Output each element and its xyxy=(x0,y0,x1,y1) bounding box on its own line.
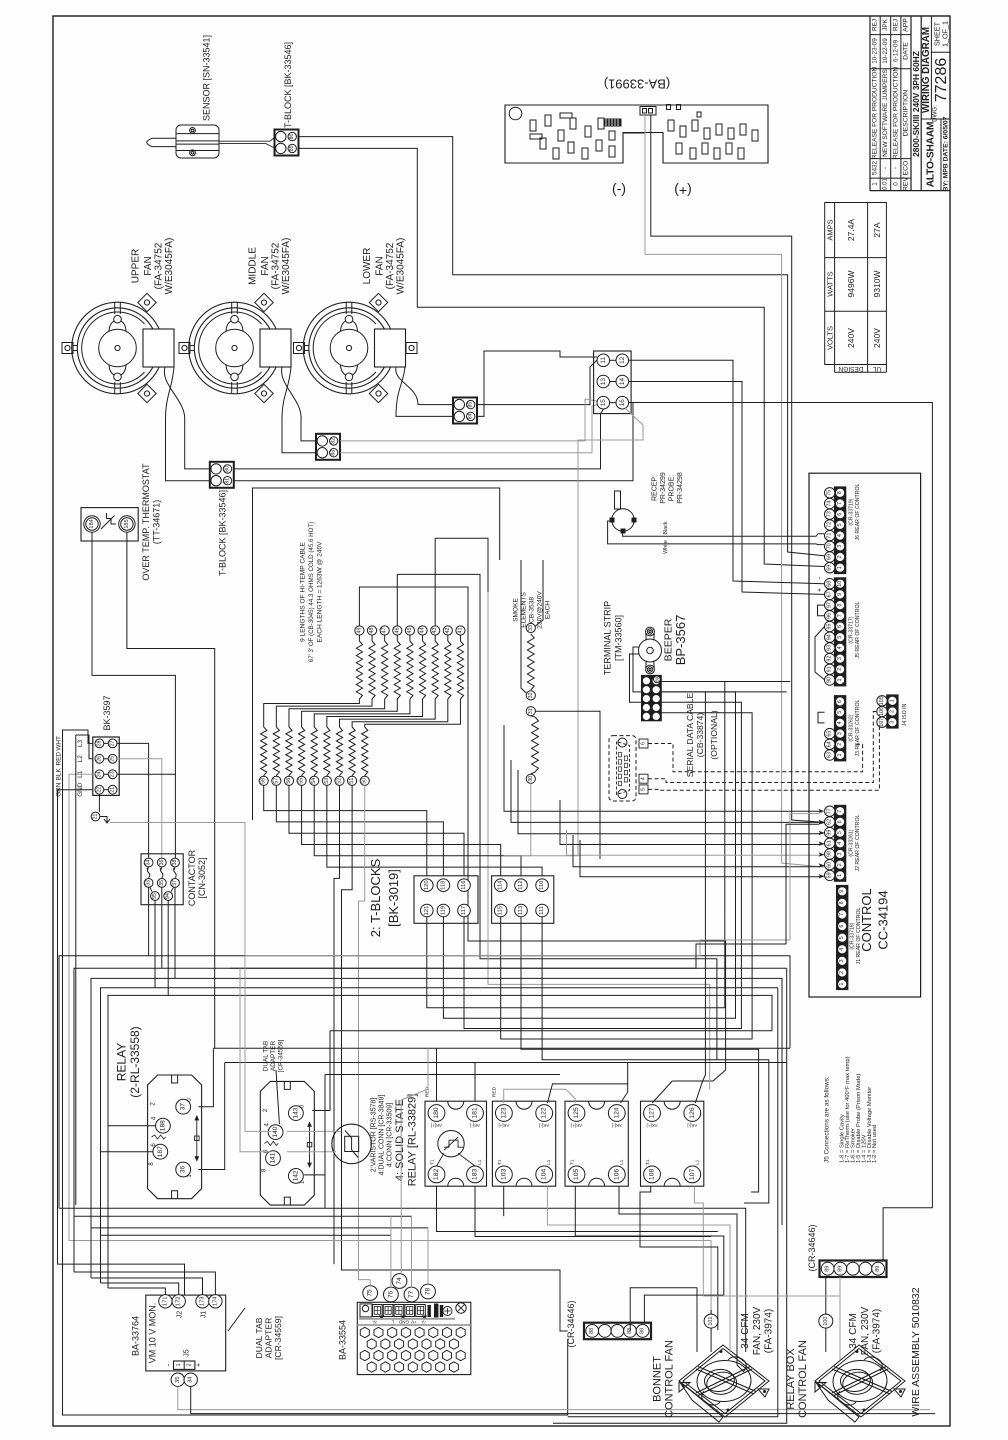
wire thermostat 184 down xyxy=(92,532,175,858)
svg-text:1: 1 xyxy=(839,983,845,986)
wire node101 to fan xyxy=(710,1328,712,1352)
svg-text:AMPS: AMPS xyxy=(825,219,834,240)
svg-text:3: 3 xyxy=(837,853,843,856)
wire heater terminal 58 to T-block xyxy=(264,785,427,875)
svg-text:140: 140 xyxy=(272,1126,279,1137)
svg-text:T1: T1 xyxy=(570,1159,575,1165)
svg-text:94: 94 xyxy=(165,893,171,899)
svg-text:FAN, 230V: FAN, 230V xyxy=(860,1306,871,1355)
wire L3 to contactor xyxy=(117,743,149,858)
svg-text:94: 94 xyxy=(827,634,833,640)
svg-text:65: 65 xyxy=(827,731,833,737)
heater element terminal 43 xyxy=(431,626,440,635)
svg-text:RELEASE FOR PRODUCTION: RELEASE FOR PRODUCTION xyxy=(872,67,879,160)
svg-text:CONTROL FAN: CONTROL FAN xyxy=(797,1340,809,1418)
svg-text:4:CONN [CR-33509]: 4:CONN [CR-33509] xyxy=(387,1103,394,1167)
svg-text:RELAY [RL-33829]: RELAY [RL-33829] xyxy=(407,1094,419,1187)
wire connector1 pin4 to node101 xyxy=(630,1288,697,1352)
svg-text:L1: L1 xyxy=(694,1159,699,1165)
svg-text:15: 15 xyxy=(600,399,607,407)
svg-text:White: White xyxy=(663,540,669,554)
heater resistor R56 xyxy=(286,727,292,776)
svg-text:9496W: 9496W xyxy=(846,271,856,298)
heater element terminal 48 xyxy=(367,626,376,635)
wire heater R46 to R55 xyxy=(302,699,398,727)
varistor circle xyxy=(332,1124,372,1164)
svg-text:TERMINAL STRIP: TERMINAL STRIP xyxy=(603,601,613,675)
svg-text:13: 13 xyxy=(600,378,607,386)
svg-text:CONTACTOR: CONTACTOR xyxy=(187,849,197,906)
left feeder wires xyxy=(58,790,185,1295)
svg-text:27.4A: 27.4A xyxy=(846,219,856,242)
svg-text:CB-3538: CB-3538 xyxy=(529,597,536,623)
svg-text:REV: REV xyxy=(903,177,910,191)
svg-text:5: 5 xyxy=(641,788,647,791)
heater row2 outputs 52-50 down long xyxy=(334,785,339,1264)
svg-text:-: - xyxy=(892,167,899,169)
wire terminal 14 to J5 plus xyxy=(629,382,824,595)
svg-text:GND: GND xyxy=(398,1319,409,1324)
svg-text:PR-34299: PR-34299 xyxy=(660,472,667,504)
svg-text:JPK: JPK xyxy=(882,18,889,30)
svg-text:ADAPTER: ADAPTER xyxy=(264,1318,274,1359)
svg-text:181: 181 xyxy=(472,1107,479,1119)
svg-text:22: 22 xyxy=(96,787,102,793)
heater element terminal 54 xyxy=(310,776,319,785)
svg-text:10-23-09: 10-23-09 xyxy=(872,38,879,64)
svg-text:62: 62 xyxy=(827,819,833,825)
svg-text:90: 90 xyxy=(827,677,833,683)
svg-text:BA-33764: BA-33764 xyxy=(131,1316,141,1356)
wire heater terminal 57 to T-block xyxy=(276,785,443,875)
svg-text:9310W: 9310W xyxy=(872,271,882,298)
wire smoke 33 up xyxy=(535,560,543,626)
svg-text:(CB-33874): (CB-33874) xyxy=(695,713,705,758)
svg-text:1: 1 xyxy=(837,874,843,877)
control board CC-34194 outline xyxy=(809,473,921,997)
svg-text:1-2 = Not used: 1-2 = Not used xyxy=(872,1125,878,1163)
svg-text:67' 3' OF (CB-3045) 44.3 OHMS: 67' 3' OF (CB-3045) 44.3 OHMS COLD (45.6… xyxy=(308,522,315,663)
svg-text:6: 6 xyxy=(641,742,647,745)
svg-text:3: 3 xyxy=(837,732,843,735)
svg-text:182: 182 xyxy=(433,1169,440,1181)
svg-text:123: 123 xyxy=(500,1107,507,1119)
svg-text:1: 1 xyxy=(176,1363,182,1366)
svg-text:174: 174 xyxy=(212,1296,218,1306)
svg-text:46: 46 xyxy=(394,628,400,634)
wire to connector J2 row 7 xyxy=(580,840,825,877)
svg-text:DWG:: DWG: xyxy=(931,105,938,122)
svg-text:(CR-34646): (CR-34646) xyxy=(807,1224,817,1271)
enclosure wire right vertical 1 xyxy=(568,988,778,1417)
svg-text:VM 10 V MON.: VM 10 V MON. xyxy=(148,1303,158,1364)
svg-text:105: 105 xyxy=(573,1169,580,1181)
wire heater R49 to R58 xyxy=(264,699,360,727)
enclosure wire right vertical 2 xyxy=(553,968,787,1423)
svg-text:61: 61 xyxy=(827,840,833,846)
svg-text:4: 4 xyxy=(839,948,845,951)
wire beeper to strip xyxy=(633,647,642,692)
svg-text:AK[+]: AK[+] xyxy=(431,1123,442,1128)
wire sensor T-block pin 85 to J6 xyxy=(299,148,825,566)
svg-text:21: 21 xyxy=(93,814,99,820)
svg-text:1: 1 xyxy=(872,182,879,186)
svg-text:124: 124 xyxy=(613,1107,620,1119)
svg-text:FAN: FAN xyxy=(374,256,385,275)
svg-text:J5 Connections are as follows:: J5 Connections are as follows: xyxy=(824,1076,831,1163)
long bus lines lower region xyxy=(59,1208,746,1352)
svg-text:51: 51 xyxy=(349,778,355,784)
svg-text:1: 1 xyxy=(837,566,843,569)
wire node100 xyxy=(825,1277,827,1314)
smoke element resistor 31-30 xyxy=(526,707,535,716)
svg-text:0: 0 xyxy=(892,182,899,186)
wire T-block 80 to terminal 15 xyxy=(234,409,604,469)
svg-text:8: 8 xyxy=(837,491,843,494)
svg-text:4: 4 xyxy=(837,646,843,649)
wire bus to relay 2 pin 0 xyxy=(330,1030,772,1032)
svg-text:(FA-3974): (FA-3974) xyxy=(764,1309,775,1353)
BA-33991 right components xyxy=(668,120,674,131)
svg-text:4: 4 xyxy=(641,777,647,780)
svg-text:7: 7 xyxy=(837,502,843,505)
svg-text:26: 26 xyxy=(96,756,102,762)
svg-text:240V: 240V xyxy=(846,328,856,348)
svg-text:FAN: FAN xyxy=(143,256,154,275)
svg-text:1: 1 xyxy=(837,679,843,682)
svg-text:110: 110 xyxy=(539,881,545,890)
svg-text:T1: T1 xyxy=(430,1159,435,1165)
heater element terminal 42 xyxy=(443,626,452,635)
BA-33991 striped connector xyxy=(604,119,621,126)
svg-text:SERIAL DATA CABLE: SERIAL DATA CABLE xyxy=(685,693,695,778)
wire middle fan to T-block 82/83 xyxy=(282,367,316,441)
wire BA-33991 connector right pin xyxy=(651,115,824,822)
svg-text:143: 143 xyxy=(292,1107,299,1118)
BA-33554 top strip xyxy=(360,1304,372,1317)
svg-text:185: 185 xyxy=(124,519,130,528)
heater resistor R53 xyxy=(324,727,330,776)
svg-text:48: 48 xyxy=(369,628,375,634)
solid state relay 2 (123/122) xyxy=(492,1101,555,1186)
svg-text:5: 5 xyxy=(837,711,843,714)
svg-text:5: 5 xyxy=(837,636,843,639)
wire probe white to J6 xyxy=(608,521,824,545)
wire connector2 to fan xyxy=(839,1277,841,1360)
svg-text:RED: RED xyxy=(56,752,63,766)
svg-text:187: 187 xyxy=(157,1146,164,1157)
svg-text:ECO: ECO xyxy=(903,161,910,176)
wire ssr outputs staircase to fans xyxy=(503,1186,505,1216)
svg-text:55: 55 xyxy=(299,778,305,784)
wire heater terminal 54 to T-block xyxy=(314,785,521,875)
svg-text:106: 106 xyxy=(879,707,885,716)
node 101 xyxy=(704,1314,718,1328)
wire relay2 pin1 to 142 xyxy=(304,1175,325,1208)
svg-text:21: 21 xyxy=(110,787,116,793)
heater element terminal 44 xyxy=(418,626,427,635)
svg-text:7: 7 xyxy=(839,913,845,916)
svg-text:106: 106 xyxy=(613,1169,620,1181)
svg-text:114: 114 xyxy=(498,880,504,890)
connector CR-34646 relay box xyxy=(820,1261,887,1278)
svg-text:J3 REAR OF CONTROL: J3 REAR OF CONTROL xyxy=(855,700,861,757)
heater resistor R49 xyxy=(358,635,360,641)
J3 jumper xyxy=(818,712,825,723)
svg-text:230V@240V: 230V@240V xyxy=(537,591,544,629)
wires BA-33764 down xyxy=(178,1386,930,1409)
svg-text:NEW SOFTWARE JUMPERS: NEW SOFTWARE JUMPERS xyxy=(882,69,889,157)
solid state relay 3 (125/124) xyxy=(565,1101,628,1186)
svg-text:0.01: 0.01 xyxy=(883,178,889,190)
svg-text:142: 142 xyxy=(292,1170,299,1181)
svg-text:100: 100 xyxy=(823,1317,829,1326)
svg-text:53: 53 xyxy=(324,778,330,784)
svg-text:-: - xyxy=(882,167,889,169)
svg-text:2:VARISTOR [RS-3578]: 2:VARISTOR [RS-3578] xyxy=(371,1098,378,1172)
svg-text:W/E3045FA): W/E3045FA) xyxy=(395,238,406,295)
svg-text:59: 59 xyxy=(827,872,833,878)
svg-text:DUAL TAB: DUAL TAB xyxy=(254,1317,264,1358)
svg-text:4:DUAL CONN [CR-3849]: 4:DUAL CONN [CR-3849] xyxy=(379,1095,386,1176)
wire ssr1 outputs to bus xyxy=(437,1186,718,1231)
svg-text:11: 11 xyxy=(600,357,607,364)
ratings table xyxy=(825,203,887,373)
svg-text:69: 69 xyxy=(827,554,833,560)
svg-text:180: 180 xyxy=(433,1107,440,1119)
svg-text:J5 REAR OF CONTROL: J5 REAR OF CONTROL xyxy=(855,602,861,659)
svg-text:L1: L1 xyxy=(477,1159,482,1165)
svg-text:72: 72 xyxy=(827,522,833,528)
svg-text:67: 67 xyxy=(827,591,833,597)
svg-text:30: 30 xyxy=(528,776,534,782)
svg-text:188: 188 xyxy=(159,1120,166,1131)
wire heater R48 to R57 xyxy=(276,699,372,727)
svg-text:L3: L3 xyxy=(77,739,84,747)
svg-text:184: 184 xyxy=(89,519,95,528)
BA-33554 terminals 75-78 xyxy=(363,1286,378,1301)
svg-text:(CR-33717): (CR-33717) xyxy=(849,616,855,643)
svg-text:J6 REAR OF CONTROL: J6 REAR OF CONTROL xyxy=(855,484,861,541)
solid state relay 1 (180/181) xyxy=(425,1101,487,1186)
fan motor LOWER FAN FA-34752 xyxy=(303,302,395,394)
svg-text:103: 103 xyxy=(500,1169,507,1181)
serial data DB9 connector (optional) xyxy=(609,736,636,801)
svg-text:86: 86 xyxy=(289,134,295,140)
svg-text:(CR-33718): (CR-33718) xyxy=(850,922,856,949)
svg-text:SENSOR [SN-33541]: SENSOR [SN-33541] xyxy=(202,35,212,121)
svg-text:[CN-3052]: [CN-3052] xyxy=(197,857,207,898)
svg-text:10: 10 xyxy=(837,581,843,587)
svg-text:+: + xyxy=(196,1363,203,1367)
svg-text:89: 89 xyxy=(654,676,659,682)
heater enclosure box xyxy=(253,488,500,820)
svg-text:47: 47 xyxy=(382,628,388,634)
heater resistor R41 xyxy=(459,635,461,641)
heater element terminal 53 xyxy=(322,776,331,785)
connector J6 CR-33719 xyxy=(835,487,846,574)
wire BA-33991 connector left pin (gray) xyxy=(645,115,824,867)
svg-text:AK[+]: AK[+] xyxy=(647,1123,658,1128)
svg-text:28: 28 xyxy=(96,740,102,746)
svg-text:52: 52 xyxy=(336,778,342,784)
svg-text:T-BLOCK [BK-33546]: T-BLOCK [BK-33546] xyxy=(283,42,293,128)
svg-text:25: 25 xyxy=(110,756,116,762)
heater resistor R54 xyxy=(311,727,317,776)
svg-text:W/E3045FA): W/E3045FA) xyxy=(281,238,292,295)
svg-text:(CR-34646): (CR-34646) xyxy=(566,1300,576,1347)
svg-text:6-12-09: 6-12-09 xyxy=(892,40,899,62)
svg-text:77: 77 xyxy=(408,1291,415,1299)
fan motor MIDDLE FAN FA-34752 xyxy=(189,302,281,394)
svg-text:4: 4 xyxy=(837,534,843,537)
svg-text:5432: 5432 xyxy=(872,160,879,175)
svg-text:(+): (+) xyxy=(674,183,692,199)
wire bus to relay 1 pin 1 xyxy=(225,1062,787,1064)
svg-text:ELEMENTS: ELEMENTS xyxy=(521,592,528,628)
svg-text:119: 119 xyxy=(440,906,446,915)
svg-text:CONTROL FAN: CONTROL FAN xyxy=(664,1340,676,1418)
svg-text:PR-34298: PR-34298 xyxy=(677,472,684,504)
heater resistor R44 xyxy=(422,635,424,641)
wire terminal 16 gray down-left xyxy=(504,408,643,856)
svg-text:W/E3045FA): W/E3045FA) xyxy=(164,238,175,295)
svg-text:85: 85 xyxy=(468,402,474,408)
svg-text:34 CFM: 34 CFM xyxy=(848,1313,859,1349)
svg-text:L1: L1 xyxy=(546,1159,551,1165)
wire L1 to contactor xyxy=(117,773,175,775)
solid state relay 4 (127/126) xyxy=(641,1101,704,1186)
wire T-block 81 to terminal 16 xyxy=(234,403,633,481)
wires from T-block bottoms staircase up to terminal strip xyxy=(427,682,725,1008)
svg-text:105: 105 xyxy=(879,696,885,705)
svg-text:34: 34 xyxy=(188,1376,194,1383)
svg-text:[CR-34559]: [CR-34559] xyxy=(278,1039,285,1072)
heater element terminal 46 xyxy=(393,626,402,635)
wire L2 to contactor xyxy=(117,759,162,858)
svg-text:BONNET: BONNET xyxy=(652,1356,664,1402)
svg-text:5: 5 xyxy=(837,831,843,834)
wire smoke 30 down xyxy=(504,783,531,855)
svg-text:EACH: EACH xyxy=(545,601,552,620)
terminal block T-BLOCK BK-33546 (sensor) xyxy=(275,130,299,156)
connector J5 CR-33717 xyxy=(835,578,846,686)
svg-text:85: 85 xyxy=(289,145,295,151)
svg-text:J2: J2 xyxy=(177,1311,184,1319)
heater element terminal 41 xyxy=(456,626,465,635)
wire T-block 82 to terminal 15 run xyxy=(340,399,597,441)
svg-text:J2 REAR OF CONTROL: J2 REAR OF CONTROL xyxy=(855,815,861,872)
svg-text:111: 111 xyxy=(539,906,545,915)
svg-text:64: 64 xyxy=(827,741,833,747)
svg-text:97: 97 xyxy=(827,602,833,608)
terminal block for middle fan (82/83) xyxy=(316,434,340,460)
svg-text:70: 70 xyxy=(827,543,833,549)
heater resistor R43 xyxy=(434,635,436,641)
svg-text:(CR-33261): (CR-33261) xyxy=(849,829,855,856)
svg-text:8: 8 xyxy=(839,901,845,904)
svg-text:125: 125 xyxy=(573,1107,580,1119)
heater element terminal 50 xyxy=(360,776,369,785)
svg-text:(CR-33262): (CR-33262) xyxy=(849,714,855,741)
terminal block 11-16 xyxy=(594,351,632,414)
wire ground to right xyxy=(110,823,245,956)
wire relay2 140 to varistor xyxy=(287,1130,341,1132)
svg-text:93: 93 xyxy=(827,645,833,651)
svg-text:117: 117 xyxy=(461,906,467,915)
svg-text:95: 95 xyxy=(827,624,833,630)
main bus horizontal 4 xyxy=(101,988,778,1283)
svg-text:BP-3567: BP-3567 xyxy=(673,615,688,666)
wire heater terminal 55 to T-block xyxy=(302,785,501,875)
svg-text:104: 104 xyxy=(541,1169,548,1181)
wire relay1 coil pins to bus xyxy=(108,1125,156,1127)
svg-text:T1: T1 xyxy=(645,1159,650,1165)
svg-text:WHT: WHT xyxy=(56,736,63,751)
svg-text:(-): (-) xyxy=(612,183,626,199)
relay 2 xyxy=(260,1081,314,1205)
svg-text:33: 33 xyxy=(146,880,152,886)
svg-text:54: 54 xyxy=(311,778,317,784)
svg-text:T1: T1 xyxy=(497,1159,502,1165)
svg-text:108: 108 xyxy=(649,1169,656,1181)
svg-text:RELEASE FOR PRODUCTION: RELEASE FOR PRODUCTION xyxy=(892,67,899,160)
svg-text:N: N xyxy=(373,1319,376,1324)
svg-text:98: 98 xyxy=(827,851,833,857)
svg-text:DATE: DATE xyxy=(903,42,910,60)
svg-text:J4 ISO IN: J4 ISO IN xyxy=(902,704,908,727)
svg-text:115: 115 xyxy=(498,906,504,915)
smoke element resistor 33-32 xyxy=(526,623,535,632)
svg-text:240V: 240V xyxy=(872,328,882,348)
svg-text:60: 60 xyxy=(827,862,833,868)
contactor CN-3052 xyxy=(141,854,183,905)
svg-text:RECEP:: RECEP: xyxy=(652,475,659,501)
svg-text:121: 121 xyxy=(424,906,430,916)
svg-text:81: 81 xyxy=(225,478,231,484)
title block xyxy=(870,16,950,191)
svg-text:WIRE ASSEMBLY 5010832: WIRE ASSEMBLY 5010832 xyxy=(910,1287,922,1416)
svg-text:SMOKE: SMOKE xyxy=(513,597,520,621)
wire relay2 coil feeds xyxy=(245,956,272,1132)
BA-33991 probe connector xyxy=(640,107,656,116)
wire lower fan to T-block 84/85 xyxy=(396,367,453,405)
relay 1 (2-RL-33558) xyxy=(148,1075,202,1199)
svg-text:89: 89 xyxy=(875,1266,881,1272)
svg-text:14: 14 xyxy=(619,378,626,386)
svg-text:127: 127 xyxy=(649,1107,656,1119)
svg-text:96: 96 xyxy=(827,613,833,619)
wire terminal 16 right to far edge down xyxy=(629,403,933,1262)
svg-text:AK[+]: AK[+] xyxy=(571,1123,582,1128)
svg-text:43: 43 xyxy=(432,628,438,634)
svg-text:35: 35 xyxy=(159,880,165,886)
svg-text:(CR-33719): (CR-33719) xyxy=(849,498,855,525)
thermostat OVER TEMP TT-34671 xyxy=(81,508,138,541)
wires into BA-33764 tops xyxy=(108,1288,165,1295)
wire T-block 83 to terminal 15b xyxy=(340,405,598,453)
wire T-block 85 to terminal 11 xyxy=(477,360,597,405)
svg-text:2: 2 xyxy=(889,710,895,713)
wire to connector J2 row 1 xyxy=(504,725,825,811)
board BA-33764 VM 10V MON xyxy=(146,1295,226,1371)
svg-text:APP: APP xyxy=(903,18,910,32)
wire to connector J2 row 3 xyxy=(518,770,825,834)
svg-text:58: 58 xyxy=(261,778,267,784)
svg-text:4: 4 xyxy=(837,721,843,724)
svg-text:(BA-33991): (BA-33991) xyxy=(604,77,670,92)
svg-text:9: 9 xyxy=(839,890,845,893)
